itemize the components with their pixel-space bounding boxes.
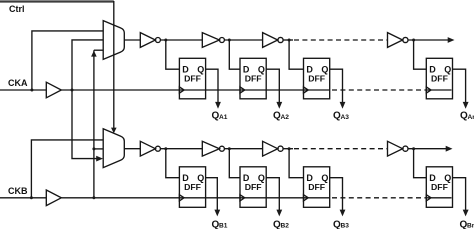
flip-flop DFFAn <box>426 58 452 99</box>
wire Ctrl vertical to MUXB select <box>113 1 115 129</box>
wire chain A end <box>408 39 449 41</box>
inverter INVB4 <box>388 141 403 156</box>
svg-text:A2: A2 <box>281 114 290 121</box>
svg-text:DFF: DFF <box>245 73 262 83</box>
inverter INVB1 <box>140 141 155 156</box>
svg-text:DFF: DFF <box>308 73 325 83</box>
flip-flop DFFB3 <box>304 167 330 208</box>
svg-text:CKA: CKA <box>8 78 28 88</box>
arrowhead QA3 <box>340 102 346 109</box>
svg-text:Ctrl: Ctrl <box>9 4 25 14</box>
inverter INVA1 <box>140 33 155 48</box>
wire DFFA2 Q output <box>266 69 279 102</box>
arrowhead into MUXB input 3 <box>96 156 103 162</box>
svg-text:DFF: DFF <box>184 73 201 83</box>
junction CKB branch to MUXB in1 <box>30 196 33 199</box>
wire CKA input line <box>0 89 46 91</box>
svg-text:An: An <box>468 114 474 121</box>
node QA1 label <box>212 111 228 122</box>
buffer BUFA <box>46 82 61 98</box>
svg-text:DFF: DFF <box>308 182 325 192</box>
wire CKA inside DFFAn <box>426 89 451 91</box>
svg-text:Bn: Bn <box>467 223 474 229</box>
buffer BUFB <box>46 190 61 206</box>
svg-text:DFF: DFF <box>431 73 448 83</box>
wire CKB input line <box>0 197 46 199</box>
node QBn label <box>460 219 474 230</box>
wire chain B end <box>408 148 447 150</box>
wire to DFFA2 D input <box>229 40 240 69</box>
wire CKA dashed clock to DFFAn <box>332 89 426 91</box>
wire chain B seg2 <box>224 148 262 150</box>
wire chain B dashed <box>294 148 388 150</box>
wire DFFB2 Q output <box>266 178 279 211</box>
svg-text:DFF: DFF <box>245 182 262 192</box>
svg-text:DFF: DFF <box>184 182 201 192</box>
junction CKA buffered branch <box>71 89 74 92</box>
arrowhead chain B output <box>446 146 453 152</box>
node QB3 label <box>333 219 349 230</box>
wire DFFA1 Q output <box>206 69 218 102</box>
node QA3 label <box>333 111 349 122</box>
flip-flop DFFA1 <box>179 58 205 99</box>
wire DFFB1 Q output <box>206 178 218 211</box>
wire buffered CKB up to MUXA input 3 <box>93 50 95 198</box>
arrowhead up into MUXA input 3 <box>91 51 97 57</box>
arrowhead QBn <box>463 210 469 217</box>
wire stub MUXA input 3 <box>94 49 103 51</box>
junction node DB1 <box>164 147 167 150</box>
node CKA label <box>8 78 28 88</box>
svg-text:CKB: CKB <box>8 186 28 196</box>
wire DFFB3 Q output <box>330 178 343 211</box>
wire chain A seg2 <box>224 39 262 41</box>
node QAn label <box>460 111 474 122</box>
wire CKB clock line to DFFB3 <box>61 197 329 199</box>
wire CKA to MUXA input 1 <box>32 31 103 90</box>
svg-text:A1: A1 <box>219 114 228 121</box>
wire DFFAn Q output <box>453 69 466 102</box>
junction node DB3 <box>288 147 291 150</box>
wire chain B seg1 <box>160 148 202 150</box>
inverter INVA3 <box>263 33 278 48</box>
arrowhead QB2 <box>276 210 282 217</box>
arrowhead QB1 <box>214 210 220 217</box>
wire chain A seg1 <box>160 39 202 41</box>
wire DFFBn Q output <box>453 178 466 211</box>
node QA2 label <box>273 111 289 122</box>
junction CKB branch to MUXB in2 <box>92 147 95 150</box>
arrowhead QA2 <box>276 102 282 109</box>
wire chain B seg3 <box>283 148 293 150</box>
wire to DFFA1 D input <box>166 40 180 69</box>
wire CKB to MUXB input 1 <box>31 140 103 198</box>
wire chain A seg3 <box>283 39 293 41</box>
wire MUXB output <box>124 148 140 150</box>
junction CKA branch to MUXA in1 <box>30 89 33 92</box>
node QB1 label <box>212 219 228 230</box>
svg-text:A3: A3 <box>341 114 350 121</box>
wire CKA clock line to DFFA3 <box>61 89 329 91</box>
wire to DFFA3 D input <box>289 40 303 69</box>
wire to DFFAn D input <box>414 40 427 69</box>
junction node DB2 <box>228 147 231 150</box>
flip-flop DFFBn <box>426 167 452 208</box>
svg-text:B2: B2 <box>281 223 290 229</box>
inverter INVA4 <box>388 33 403 48</box>
wire chain A dashed <box>294 39 388 41</box>
node Ctrl label <box>9 4 25 14</box>
flip-flop DFFB1 <box>179 167 205 208</box>
arrowhead chain A output <box>448 37 455 43</box>
mux MUXB <box>103 129 124 168</box>
wire to DFFBn D input <box>414 149 427 178</box>
svg-text:DFF: DFF <box>431 182 448 192</box>
inverter INVB3 <box>263 141 278 156</box>
svg-text:B1: B1 <box>219 223 228 229</box>
arrowhead QA1 <box>215 102 221 109</box>
flip-flop DFFA2 <box>240 58 266 99</box>
junction node DA2 <box>228 39 231 42</box>
svg-text:B3: B3 <box>341 223 350 229</box>
inverter INVB2 <box>202 141 219 156</box>
arrowhead QB3 <box>340 210 346 217</box>
wire buffered CKA to MUXA input 2 <box>72 40 103 90</box>
arrowhead QAn <box>463 102 469 109</box>
wire CKB dashed clock to DFFBn <box>332 197 426 199</box>
inverter INVA2 <box>202 33 219 48</box>
flip-flop DFFB2 <box>240 167 266 208</box>
wire MUXA output <box>124 39 140 41</box>
junction node DA3 <box>288 39 291 42</box>
wire stub MUXB input 2 <box>94 148 103 150</box>
node QB2 label <box>273 219 289 230</box>
junction node DA1 <box>164 39 167 42</box>
wire DFFA3 Q output <box>330 69 343 102</box>
junction CKB buffered branch <box>92 196 95 199</box>
wire buffered CKA down to MUXB input 3 <box>72 90 99 159</box>
wire to DFFB3 D input <box>289 149 303 178</box>
wire to DFFB2 D input <box>229 149 240 178</box>
arrowhead Ctrl into MUXB select <box>111 128 117 134</box>
wire Ctrl top rail <box>0 0 114 2</box>
node CKB label <box>8 186 28 196</box>
flip-flop DFFA3 <box>304 58 330 99</box>
wire CKB inside DFFBn <box>426 197 451 199</box>
junction node DAn <box>412 39 415 42</box>
mux MUXA <box>103 21 124 60</box>
wire to DFFB1 D input <box>166 149 180 178</box>
junction node DBn <box>412 147 415 150</box>
